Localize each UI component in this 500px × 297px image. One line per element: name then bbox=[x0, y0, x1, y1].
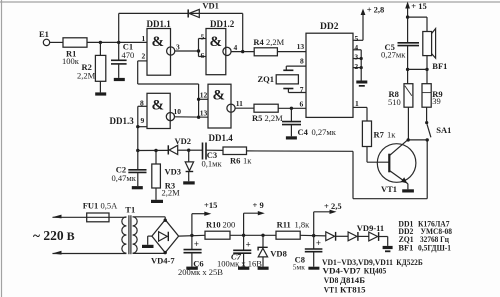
svg-text:R10: R10 bbox=[206, 220, 221, 230]
AC input arrow top bbox=[52, 215, 62, 219]
svg-text:&: & bbox=[213, 87, 226, 103]
resistor R3 bbox=[154, 149, 157, 152]
svg-text:12: 12 bbox=[200, 91, 208, 100]
svg-text:0,5А: 0,5А bbox=[101, 200, 119, 210]
zener VD8 bbox=[261, 234, 264, 237]
op-gate DD1.4 bbox=[208, 84, 231, 128]
+15 supply arrow top bbox=[405, 2, 410, 9]
svg-text:200мк х 25В: 200мк х 25В bbox=[178, 267, 223, 277]
svg-text:0,27мк: 0,27мк bbox=[381, 49, 406, 59]
transistor VT1 bbox=[377, 144, 416, 183]
svg-text:1к: 1к bbox=[387, 130, 396, 140]
wire to BF1 top bbox=[408, 16, 427, 18]
bridge rectifier VD4-7 bbox=[152, 220, 179, 253]
svg-text:3: 3 bbox=[354, 52, 358, 61]
svg-text:T1: T1 bbox=[125, 205, 135, 215]
pin 9 bbox=[138, 126, 147, 128]
svg-text:1: 1 bbox=[355, 99, 359, 108]
wire R1 to DD1.1 pin 1 bbox=[87, 41, 147, 43]
wire feedback riser right bbox=[242, 13, 244, 51]
pin 5 bbox=[199, 38, 207, 40]
svg-text:6: 6 bbox=[201, 51, 205, 60]
pin 1 wire bbox=[353, 106, 367, 108]
svg-text:VT1: VT1 bbox=[324, 285, 338, 295]
svg-text:5: 5 bbox=[201, 32, 205, 41]
capacitor C5 on rail bbox=[407, 17, 409, 42]
svg-text:BF1: BF1 bbox=[432, 61, 447, 71]
collector junction row bbox=[407, 138, 410, 141]
pin 13 junction bbox=[197, 116, 200, 119]
diode VD3 bbox=[188, 150, 190, 162]
svg-text:9: 9 bbox=[141, 116, 145, 125]
wire secondary top to bridge bbox=[133, 216, 166, 218]
supply arrow +9 bbox=[242, 234, 245, 237]
node junction C1/VD1 bbox=[117, 41, 120, 44]
svg-text:0,27мк: 0,27мк bbox=[312, 127, 337, 137]
node pins 5-6 vertical bbox=[198, 39, 200, 57]
svg-text:+: + bbox=[316, 238, 321, 248]
svg-text:2,2М: 2,2М bbox=[266, 37, 285, 47]
svg-text:4: 4 bbox=[354, 43, 358, 52]
resistor R4 bbox=[254, 48, 277, 56]
svg-text:4: 4 bbox=[234, 43, 238, 52]
svg-text:DD1.3: DD1.3 bbox=[110, 116, 135, 126]
wire R6 to SA1 long path bbox=[247, 150, 354, 152]
svg-text:1: 1 bbox=[142, 34, 146, 43]
svg-text:10: 10 bbox=[174, 107, 182, 116]
svg-text:0,1мк: 0,1мк bbox=[202, 159, 223, 169]
wire pins 8-9 down to C2 node bbox=[137, 106, 139, 150]
border frame top bbox=[0, 1, 500, 3]
svg-text:R11: R11 bbox=[277, 220, 291, 230]
svg-text:6: 6 bbox=[300, 100, 304, 109]
svg-text:VD2: VD2 bbox=[175, 136, 192, 146]
ground C2 bbox=[132, 186, 143, 189]
AC input arrow bottom bbox=[52, 251, 62, 255]
svg-text:VD8: VD8 bbox=[270, 248, 287, 258]
wire pin2 path down bbox=[137, 61, 139, 84]
svg-text:100к: 100к bbox=[62, 56, 80, 66]
svg-text:FU1: FU1 bbox=[83, 200, 99, 210]
svg-text:+ 2,8: + 2,8 bbox=[367, 4, 385, 14]
wire bridge to rail bbox=[179, 234, 205, 237]
resistor R9 bbox=[422, 84, 431, 108]
op-gate DD1.2 bbox=[206, 29, 226, 75]
wire feedback riser left bbox=[118, 13, 120, 42]
fuse FU1 bbox=[87, 213, 109, 222]
svg-text:510: 510 bbox=[388, 97, 401, 107]
emitter ground bbox=[407, 184, 409, 190]
capacitor C6 bbox=[191, 235, 193, 249]
svg-text:2,2М: 2,2М bbox=[77, 71, 96, 81]
pin 7 wire from ZQ1 bbox=[287, 89, 289, 93]
node VD3/C3 bbox=[187, 149, 190, 152]
svg-text:&: & bbox=[152, 98, 165, 114]
svg-text:2,2М: 2,2М bbox=[162, 188, 181, 198]
svg-text:11: 11 bbox=[236, 99, 243, 108]
svg-text:BF1: BF1 bbox=[398, 243, 413, 252]
resistor R11 bbox=[276, 231, 300, 239]
ground C1 bbox=[114, 78, 125, 81]
pin 12 bbox=[199, 98, 208, 100]
svg-text:DD1.1: DD1.1 bbox=[147, 19, 172, 29]
svg-text:2: 2 bbox=[354, 62, 358, 71]
svg-text:КТ815: КТ815 bbox=[340, 285, 366, 295]
resistor R5 bbox=[254, 104, 278, 112]
svg-text:470: 470 bbox=[122, 50, 135, 60]
wire cross horizontal bbox=[138, 83, 199, 85]
ground pins 4,3,2 bbox=[360, 68, 362, 81]
svg-text:+ 15: + 15 bbox=[411, 1, 426, 11]
diode VD1 bbox=[187, 9, 189, 17]
capacitor C1 bbox=[118, 42, 120, 60]
svg-text:КД522Б: КД522Б bbox=[396, 257, 423, 267]
svg-text:1,8к: 1,8к bbox=[295, 220, 311, 230]
wire secondary bottom to bridge bbox=[133, 252, 166, 254]
svg-text:Д814Б: Д814Б bbox=[340, 275, 365, 285]
svg-text:VD1: VD1 bbox=[202, 1, 219, 11]
border frame left bbox=[1, 0, 3, 297]
supply arrow +2,5 bbox=[312, 234, 315, 237]
op-gate DD1.1 bbox=[147, 29, 171, 76]
svg-text:0,47мк: 0,47мк bbox=[112, 173, 137, 183]
pin 3 wire bbox=[175, 50, 199, 52]
ground bridge bbox=[148, 235, 152, 237]
pin 8 bbox=[138, 105, 147, 107]
capacitor C3 bbox=[189, 149, 202, 151]
svg-text:8: 8 bbox=[300, 57, 304, 66]
svg-text:+ 2,5: + 2,5 bbox=[324, 201, 342, 211]
svg-text:3: 3 bbox=[176, 43, 180, 52]
wire E1 to R1 bbox=[50, 41, 63, 43]
capacitor C4 bbox=[290, 108, 292, 121]
wire node row bbox=[138, 149, 168, 151]
svg-text:VD4-7: VD4-7 bbox=[151, 255, 175, 265]
op-gate DD1.3 bbox=[147, 93, 170, 128]
svg-text:+ 9: + 9 bbox=[253, 200, 264, 210]
wire R5 to DD2 pin 6 bbox=[278, 107, 306, 109]
capacitor C7 bbox=[243, 235, 245, 250]
resistor R7 bbox=[362, 121, 371, 147]
svg-text:DD1.4: DD1.4 bbox=[209, 133, 234, 143]
svg-text:8: 8 bbox=[140, 98, 144, 107]
svg-text:&: & bbox=[210, 34, 223, 50]
svg-text:2,2М: 2,2М bbox=[265, 113, 284, 123]
svg-text:VT1: VT1 bbox=[381, 184, 397, 194]
ground VD3 bbox=[183, 181, 195, 184]
capacitor C2 bbox=[136, 149, 139, 152]
svg-text:+: + bbox=[246, 240, 251, 250]
pin 6 bbox=[199, 56, 207, 58]
svg-text:+: + bbox=[194, 239, 199, 249]
ground R3 bbox=[151, 200, 163, 203]
resistor R8 bbox=[404, 84, 413, 108]
resistor R6 bbox=[223, 147, 247, 155]
pin 10 wire bbox=[175, 116, 209, 118]
IC DD2 bbox=[306, 33, 353, 117]
speaker BF1 bbox=[423, 32, 432, 56]
wire vertical to pins 12/13 bbox=[198, 84, 200, 117]
svg-text:39: 39 bbox=[432, 96, 441, 106]
svg-text:&: & bbox=[152, 34, 165, 50]
terminal E1 bbox=[43, 39, 49, 45]
pins 4,3,2 tied bbox=[353, 49, 361, 51]
pin 4 wire bbox=[231, 51, 254, 53]
svg-text:200: 200 bbox=[223, 220, 236, 230]
svg-text:+15: +15 bbox=[204, 200, 217, 210]
svg-text:0,5ГДШ-1: 0,5ГДШ-1 bbox=[418, 243, 451, 252]
switch SA1 bbox=[425, 121, 428, 124]
svg-text:13: 13 bbox=[297, 42, 305, 51]
svg-text:5мк: 5мк bbox=[293, 263, 305, 272]
svg-text:R5: R5 bbox=[252, 113, 262, 123]
svg-text:R6: R6 bbox=[230, 156, 240, 166]
diode VD2 bbox=[167, 145, 169, 154]
supply arrow +15 bbox=[190, 234, 193, 237]
svg-text:1к: 1к bbox=[243, 156, 252, 166]
svg-text:E1: E1 bbox=[39, 29, 49, 39]
capacitor C8 bbox=[313, 236, 315, 249]
resistor R1 bbox=[63, 38, 87, 47]
svg-text:КЦ405: КЦ405 bbox=[364, 266, 387, 276]
svg-text:C4: C4 bbox=[298, 127, 309, 137]
svg-text:7: 7 bbox=[300, 85, 304, 94]
pin 8 wire to ZQ1 bbox=[286, 65, 306, 67]
resistor R10 bbox=[205, 231, 230, 239]
svg-text:VD9-11: VD9-11 bbox=[357, 223, 384, 233]
svg-text:DD1.2: DD1.2 bbox=[210, 19, 235, 29]
svg-text:R7: R7 bbox=[374, 130, 385, 140]
node row under BF1 bbox=[406, 68, 409, 71]
wire R4 to DD2 pin 13 bbox=[277, 51, 306, 53]
svg-text:2: 2 bbox=[142, 52, 146, 61]
resistor R2 bbox=[99, 42, 101, 55]
ground C4 bbox=[286, 136, 297, 139]
pin 2 bbox=[138, 60, 147, 62]
svg-text:VD3: VD3 bbox=[165, 167, 182, 177]
pin 11 wire bbox=[235, 107, 254, 109]
svg-text:VD8: VD8 bbox=[324, 275, 339, 285]
svg-text:DD2: DD2 bbox=[320, 22, 339, 32]
wire R7 to VT1 base bbox=[366, 147, 368, 163]
svg-text:13: 13 bbox=[200, 109, 208, 118]
svg-text:R4: R4 bbox=[253, 37, 264, 47]
wire feedback top bbox=[119, 12, 243, 14]
node junction R2 bbox=[99, 41, 102, 44]
svg-text:~ 220 В: ~ 220 В bbox=[33, 228, 75, 243]
crystal ZQ1 bbox=[283, 69, 293, 71]
svg-text:5: 5 bbox=[355, 34, 359, 43]
pin 5 wire and +2,8 supply arrow bbox=[353, 39, 363, 41]
ground R2 bbox=[95, 92, 106, 95]
svg-text:SA1: SA1 bbox=[436, 125, 451, 135]
svg-text:ZQ1: ZQ1 bbox=[258, 74, 275, 84]
